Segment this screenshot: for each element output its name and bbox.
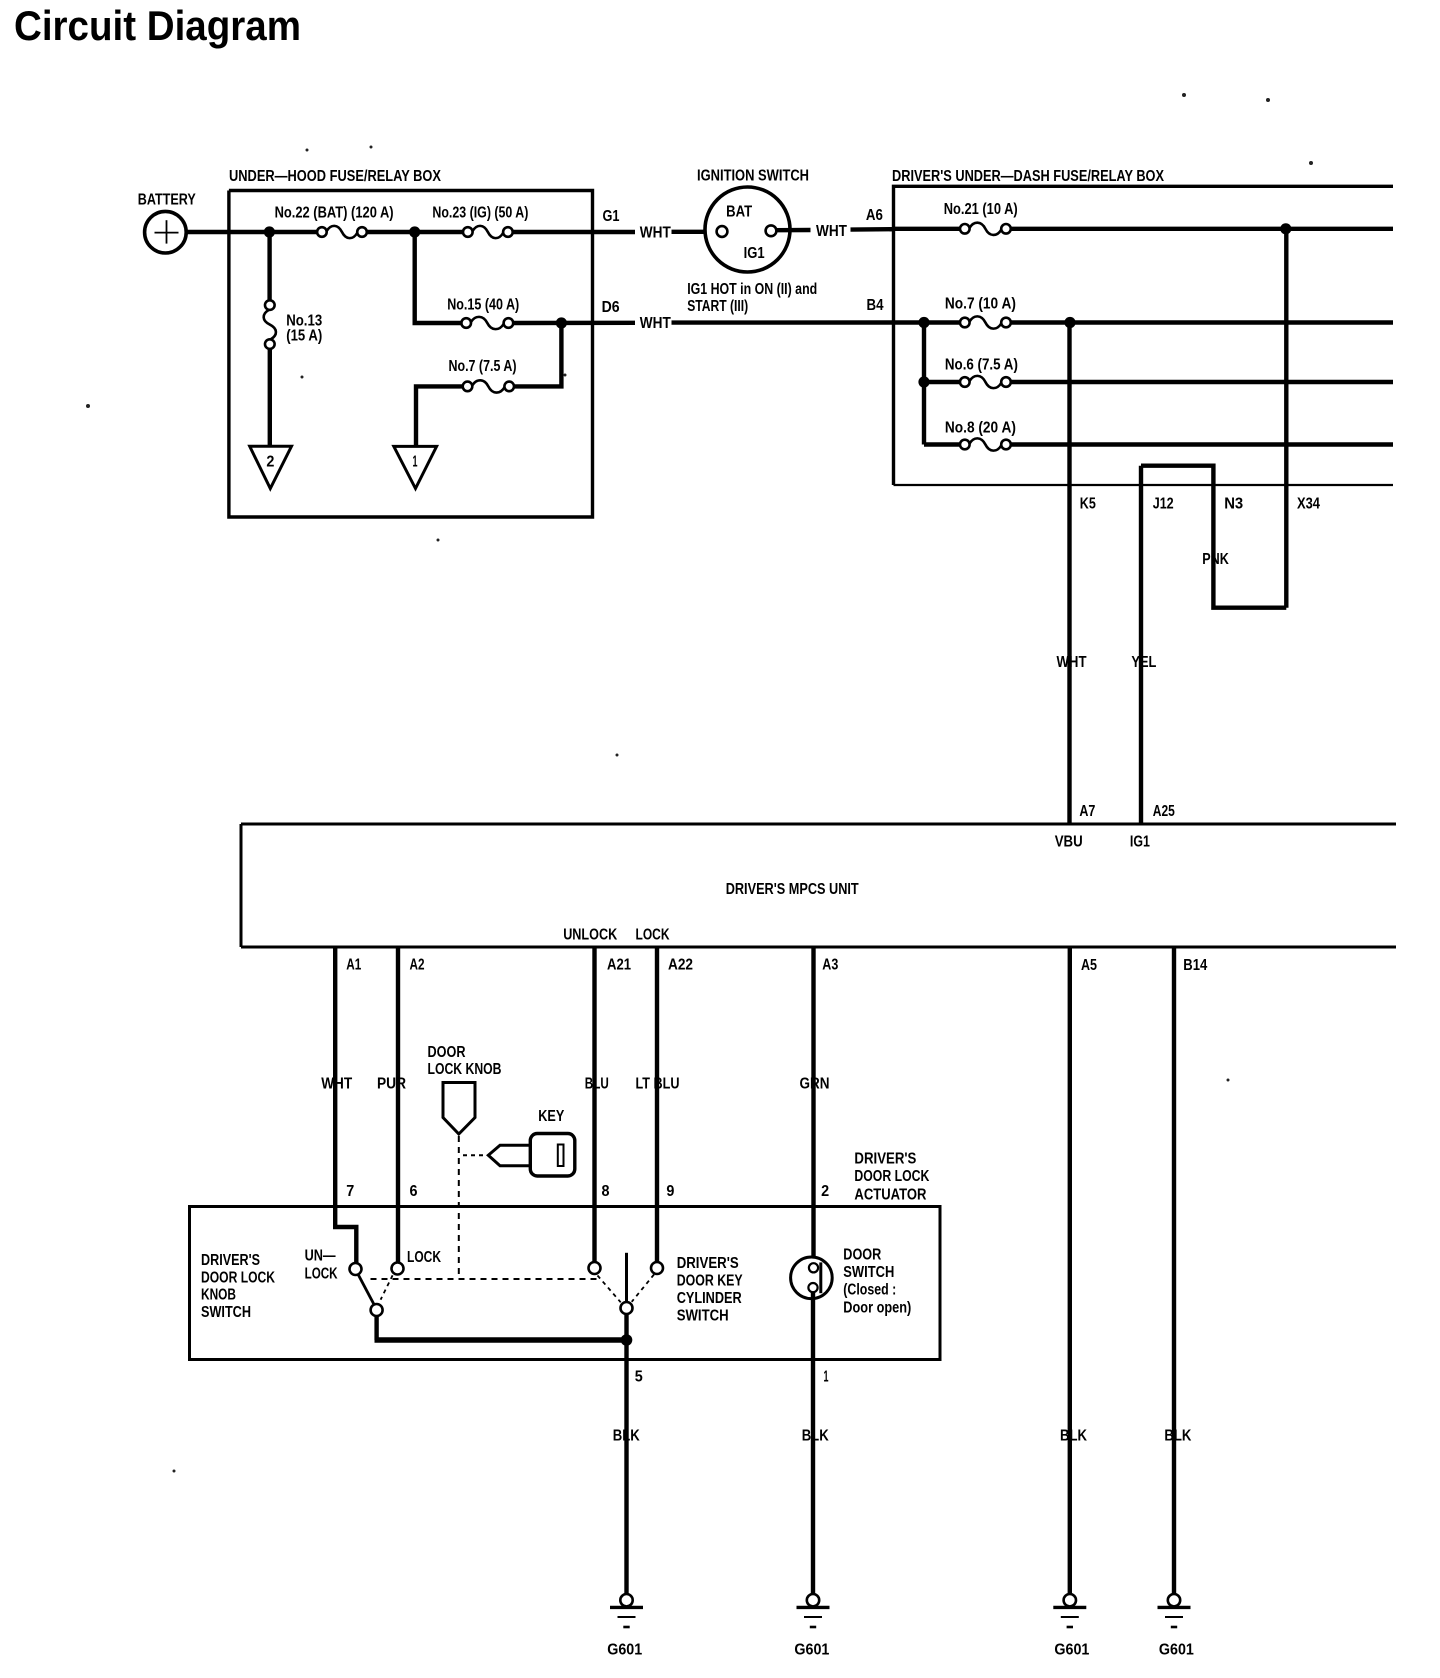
wire 5 BLK: [624, 1340, 628, 1595]
door switch label: [843, 1247, 911, 1317]
wire fuse No.8 row out right: [1011, 442, 1393, 446]
wire fuse No.7 to ground 1: [416, 386, 463, 446]
svg-text:START (III): START (III): [687, 298, 748, 315]
linkage dashed to cylinder right: [632, 1275, 654, 1302]
wire ignition to WHT right: [776, 228, 810, 233]
wire down to fuse No.13: [267, 232, 271, 300]
svg-text:8: 8: [602, 1183, 610, 1200]
svg-text:BLK: BLK: [802, 1428, 829, 1445]
wire WHT to A6: [851, 227, 895, 232]
door switch: [791, 1257, 833, 1299]
svg-text:BLK: BLK: [1164, 1428, 1191, 1445]
wire fuse No.15 to D6: [513, 321, 635, 326]
svg-text:No.23 (IG) (50 A): No.23 (IG) (50 A): [432, 205, 528, 222]
wire A1 WHT: [335, 947, 356, 1263]
node IG feed junction: [409, 226, 420, 237]
wire common to output bar: [374, 1316, 378, 1340]
svg-text:No.7 (7.5 A): No.7 (7.5 A): [449, 358, 517, 375]
svg-text:5: 5: [635, 1368, 643, 1385]
wire branch down to No.8 row: [922, 323, 926, 445]
door lock knob symbol: [443, 1083, 475, 1135]
svg-text:BLK: BLK: [613, 1428, 640, 1445]
fuse No.8 (20 A): [960, 440, 970, 450]
svg-text:KEY: KEY: [538, 1108, 564, 1125]
wire K5 vertical WHT: [1067, 323, 1071, 825]
fuse No.7 (7.5 A): [463, 382, 473, 392]
wire A6 row to fuse No.21: [894, 227, 961, 231]
ignition switch: [705, 187, 790, 272]
svg-text:DRIVER'S: DRIVER'S: [854, 1150, 916, 1167]
svg-text:DOOR LOCK: DOOR LOCK: [201, 1269, 275, 1286]
svg-text:BAT: BAT: [726, 203, 752, 220]
svg-text:SWITCH: SWITCH: [677, 1307, 729, 1324]
svg-text:YEL: YEL: [1131, 654, 1156, 671]
svg-text:G601: G601: [607, 1641, 642, 1658]
svg-text:DRIVER'S: DRIVER'S: [201, 1252, 260, 1269]
svg-text:DOOR KEY: DOOR KEY: [677, 1272, 743, 1289]
svg-text:2: 2: [266, 454, 274, 471]
wire cylinder common to output junction: [624, 1314, 628, 1340]
node output junction: [621, 1334, 633, 1346]
node B4 branch junction: [918, 317, 929, 328]
svg-text:9: 9: [666, 1183, 674, 1200]
svg-text:A2: A2: [410, 957, 425, 974]
key symbol: [488, 1134, 575, 1177]
ground G601 at x=1069.8: [1064, 1594, 1076, 1606]
wire X34 vertical: [1284, 229, 1288, 608]
wire A22 LT BLU: [655, 947, 659, 1262]
wire D6 junction down to No.7 row: [514, 323, 561, 386]
knob switch unlock contact: [350, 1263, 362, 1275]
node X34 junction: [1280, 223, 1291, 234]
svg-text:DOOR LOCK: DOOR LOCK: [854, 1168, 929, 1185]
wire PNK loop: [1141, 466, 1286, 608]
svg-text:A5: A5: [1081, 957, 1097, 974]
fuse No.13 label: [286, 312, 322, 344]
svg-text:6: 6: [410, 1183, 418, 1200]
knob switch common contact: [371, 1304, 383, 1316]
svg-text:No.21 (10 A): No.21 (10 A): [944, 201, 1018, 218]
wire G1 out of box: [513, 230, 635, 234]
wire fuse No.22 to fuse No.23: [367, 230, 463, 234]
svg-text:WHT: WHT: [1057, 654, 1087, 671]
svg-text:N3: N3: [1224, 496, 1243, 513]
fuse No.15 (40 A): [461, 318, 471, 328]
node D6 junction: [556, 317, 567, 328]
door lock knob label: [428, 1044, 502, 1078]
svg-text:X34: X34: [1297, 496, 1320, 513]
ground G601 at x=1174: [1168, 1594, 1180, 1606]
linkage dashed horizontal: [371, 1278, 599, 1280]
wire A3 GRN upper: [811, 947, 815, 1263]
svg-text:No.15 (40 A): No.15 (40 A): [447, 297, 519, 314]
fuse No.22 (BAT) (120 A): [317, 227, 327, 237]
svg-text:DOOR: DOOR: [843, 1247, 881, 1264]
svg-text:No.7 (10 A): No.7 (10 A): [945, 295, 1016, 312]
linkage dashed to cylinder left: [598, 1276, 621, 1303]
svg-text:A3: A3: [822, 957, 838, 974]
wire B4 row to fuse No.7: [894, 320, 961, 324]
svg-text:SWITCH: SWITCH: [201, 1304, 251, 1321]
wire No.8 row to fuse: [924, 442, 960, 446]
svg-text:No.22 (BAT) (120 A): No.22 (BAT) (120 A): [275, 205, 394, 222]
svg-text:A7: A7: [1079, 803, 1095, 820]
wire WHT to ignition switch: [672, 230, 717, 234]
svg-text:WHT: WHT: [640, 315, 671, 332]
svg-text:(15 A): (15 A): [286, 328, 322, 345]
svg-text:IG1 HOT in ON (II) and: IG1 HOT in ON (II) and: [687, 281, 817, 298]
key cylinder switch common contact: [621, 1302, 633, 1314]
svg-text:LOCK: LOCK: [636, 927, 670, 944]
svg-text:K5: K5: [1080, 496, 1096, 513]
knob switch arm: [358, 1274, 374, 1305]
svg-text:A22: A22: [668, 957, 693, 974]
ground G601 at x=626.5: [620, 1594, 632, 1606]
svg-text:UNLOCK: UNLOCK: [563, 927, 617, 944]
svg-text:A25: A25: [1153, 803, 1175, 820]
wire No.6 row to fuse: [924, 380, 960, 384]
svg-text:G601: G601: [1159, 1641, 1194, 1658]
svg-text:DRIVER'S MPCS UNIT: DRIVER'S MPCS UNIT: [726, 881, 859, 898]
svg-text:A6: A6: [866, 207, 883, 224]
fuse No.13 (15 A): [265, 300, 275, 310]
key cylinder switch unlock contact 8: [589, 1262, 601, 1274]
driver's door key cylinder switch label: [677, 1255, 743, 1324]
driver's under-dash fuse/relay box: [894, 186, 1394, 485]
wire D6 WHT row to B4: [672, 320, 895, 325]
wire A21 BLU: [592, 947, 596, 1262]
svg-text:A1: A1: [346, 957, 361, 974]
node No.6 branch junction: [918, 376, 929, 387]
linkage dashed key to knob rod: [463, 1154, 487, 1156]
driver's MPCS unit box: [241, 824, 1396, 947]
wire battery to fuse No.22: [186, 230, 317, 234]
fuse No.6 (7.5 A): [960, 377, 970, 387]
svg-text:LOCK: LOCK: [305, 1265, 338, 1282]
wire A2 PUR: [396, 947, 400, 1262]
svg-text:D6: D6: [602, 299, 620, 316]
driver's door lock knob switch label: [201, 1252, 275, 1321]
svg-text:BLU: BLU: [585, 1076, 609, 1093]
svg-text:Circuit Diagram: Circuit Diagram: [14, 2, 301, 49]
under-hood fuse/relay box: [229, 191, 593, 518]
svg-text:IG1: IG1: [1130, 833, 1150, 850]
svg-text:No.8 (20 A): No.8 (20 A): [945, 419, 1016, 436]
svg-text:2: 2: [821, 1183, 829, 1200]
svg-text:J12: J12: [1153, 496, 1174, 513]
svg-text:B14: B14: [1183, 957, 1207, 974]
wire fuse No.13 to ground 2: [268, 349, 272, 447]
label UN-LOCK: [305, 1248, 338, 1283]
svg-text:1: 1: [413, 454, 418, 471]
node K5 junction: [1064, 317, 1075, 328]
svg-text:DRIVER'S: DRIVER'S: [677, 1255, 739, 1272]
ground triangle 2: [250, 446, 292, 488]
wire J12 vertical YEL: [1139, 466, 1143, 824]
battery: [145, 211, 187, 253]
wire fuse No.21 row out right: [1011, 227, 1393, 231]
svg-text:UNDER—HOOD FUSE/RELAY BOX: UNDER—HOOD FUSE/RELAY BOX: [229, 168, 441, 185]
fuse No.7 (10 A): [960, 318, 970, 328]
svg-text:BATTERY: BATTERY: [138, 192, 196, 209]
svg-text:UN—: UN—: [305, 1248, 336, 1265]
key cylinder switch lock contact 9: [651, 1262, 663, 1274]
note IG1 HOT: [687, 281, 817, 315]
svg-text:Door open): Door open): [843, 1300, 911, 1317]
svg-text:PUR: PUR: [377, 1076, 406, 1093]
ground G601 at x=813: [807, 1594, 819, 1606]
svg-text:LOCK KNOB: LOCK KNOB: [428, 1061, 502, 1078]
svg-text:G601: G601: [794, 1641, 829, 1658]
fuse No.21 (10 A): [960, 224, 970, 234]
svg-text:KNOB: KNOB: [201, 1287, 236, 1304]
svg-text:IG1: IG1: [744, 245, 765, 262]
knob switch lock contact: [392, 1263, 404, 1275]
svg-text:ACTUATOR: ACTUATOR: [854, 1186, 926, 1203]
node battery feed junction: [264, 226, 275, 237]
driver's door lock actuator label: [854, 1150, 929, 1203]
linkage dashed knob vertical: [458, 1136, 460, 1279]
svg-text:IGNITION SWITCH: IGNITION SWITCH: [697, 167, 809, 184]
svg-text:LOCK: LOCK: [407, 1249, 441, 1266]
svg-text:LT BLU: LT BLU: [636, 1076, 680, 1093]
wire A5 BLK: [1068, 947, 1072, 1595]
wire 1 BLK: [811, 1292, 815, 1595]
fuse No.23 (IG) (50 A): [463, 227, 473, 237]
wire fuse No.6 row out right: [1011, 380, 1393, 384]
ground triangle 1: [394, 446, 437, 488]
svg-text:1: 1: [824, 1368, 829, 1385]
wire fuse No.7 row out right: [1011, 320, 1393, 324]
svg-text:PNK: PNK: [1202, 551, 1229, 568]
wire B14 BLK: [1172, 947, 1176, 1595]
svg-text:7: 7: [346, 1183, 354, 1200]
svg-text:G1: G1: [603, 208, 620, 225]
svg-text:DOOR: DOOR: [428, 1044, 466, 1061]
svg-text:SWITCH: SWITCH: [843, 1264, 894, 1281]
svg-text:CYLINDER: CYLINDER: [677, 1290, 742, 1307]
svg-text:(Closed :: (Closed :: [843, 1281, 896, 1298]
svg-text:A21: A21: [607, 957, 631, 974]
svg-text:WHT: WHT: [321, 1076, 352, 1093]
svg-text:GRN: GRN: [800, 1076, 830, 1093]
wire thick output bar: [375, 1337, 627, 1342]
svg-text:B4: B4: [867, 297, 884, 314]
svg-text:WHT: WHT: [640, 224, 671, 241]
svg-text:WHT: WHT: [816, 223, 847, 240]
svg-text:No.6 (7.5 A): No.6 (7.5 A): [945, 356, 1018, 373]
wire junction down to No.15 row: [415, 232, 462, 323]
svg-text:G601: G601: [1054, 1641, 1089, 1658]
svg-text:VBU: VBU: [1055, 833, 1083, 850]
key cylinder switch arm: [625, 1253, 628, 1302]
knob switch dashed arm lock position: [381, 1275, 393, 1299]
svg-text:BLK: BLK: [1060, 1428, 1087, 1445]
svg-text:DRIVER'S UNDER—DASH FUSE/RELAY: DRIVER'S UNDER—DASH FUSE/RELAY BOX: [892, 168, 1164, 185]
driver's door lock knob switch / key cylinder switch / actuator box: [190, 1207, 941, 1360]
